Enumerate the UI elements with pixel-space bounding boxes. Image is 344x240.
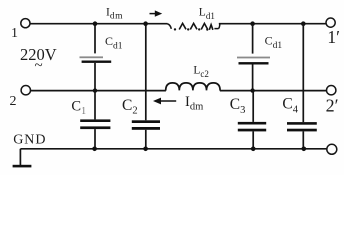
junction top at C_d1 left <box>93 21 98 26</box>
svg-text:Lc2: Lc2 <box>193 64 209 79</box>
capacitor C3 <box>238 91 266 149</box>
capacitor C4 <box>287 24 317 149</box>
label GND <box>13 132 46 147</box>
AC tilde mark <box>35 58 43 74</box>
svg-text:Cd1: Cd1 <box>105 34 123 52</box>
junction ground at C4 <box>302 147 307 152</box>
wire ground rail <box>20 148 326 150</box>
svg-text:~: ~ <box>35 58 43 74</box>
svg-text:C3: C3 <box>230 96 246 116</box>
terminal 2' <box>327 86 336 95</box>
junction row2 at C_d1 left <box>93 88 97 92</box>
label Idm middle <box>185 94 203 113</box>
label C_d1 left <box>105 34 123 52</box>
current arrow Idm top <box>150 10 163 16</box>
junction row2 at C_d1 right <box>250 88 254 92</box>
ground symbol <box>13 149 32 168</box>
node 1 label <box>11 26 18 41</box>
svg-text:Idm: Idm <box>106 6 123 21</box>
junction ground at C2 <box>143 147 148 152</box>
terminal bottom right <box>327 144 337 154</box>
node 2 label <box>10 94 17 109</box>
label C2 <box>122 97 138 117</box>
svg-text:Idm: Idm <box>185 94 203 113</box>
capacitor C2 <box>132 24 160 149</box>
svg-text:Ld1: Ld1 <box>199 7 215 22</box>
wire top rail left <box>30 23 167 25</box>
inductor L_c2 <box>166 83 220 91</box>
wire row2 left <box>31 90 166 92</box>
wire row2 right <box>220 90 327 92</box>
inductor L_d1 <box>168 23 220 30</box>
label C1 <box>71 99 86 118</box>
svg-text:C4: C4 <box>282 96 298 116</box>
label L_d1 <box>199 7 215 22</box>
junction top at C_d1 right <box>250 21 255 26</box>
label 220V <box>20 45 57 64</box>
label C3 <box>230 96 246 116</box>
current arrow Idm middle <box>153 98 176 105</box>
label C4 <box>282 96 298 116</box>
svg-text:2: 2 <box>10 94 17 109</box>
junction top at C4 <box>301 21 306 26</box>
terminal 2 <box>21 86 30 95</box>
label Idm top <box>106 6 123 21</box>
label L_c2 <box>193 64 209 79</box>
wire top rail right <box>219 23 326 25</box>
svg-text:C1: C1 <box>71 99 86 118</box>
junction ground at C3 <box>251 147 256 152</box>
terminal 1 <box>21 19 30 28</box>
junction top at C2 <box>143 21 148 26</box>
capacitor C_d1 right <box>237 24 270 91</box>
svg-text:Cd1: Cd1 <box>265 33 283 51</box>
svg-text:1: 1 <box>11 26 18 41</box>
label C_d1 right <box>265 33 283 51</box>
svg-text:2′: 2′ <box>326 96 339 116</box>
svg-text:1′: 1′ <box>327 27 340 47</box>
node 2' label <box>326 96 339 116</box>
svg-text:GND: GND <box>13 132 46 147</box>
terminal 1' <box>326 18 335 27</box>
svg-text:C2: C2 <box>122 97 138 117</box>
capacitor C_d1 left <box>80 24 112 91</box>
node 1' label <box>327 27 340 47</box>
capacitor C1 <box>80 91 110 149</box>
junction ground at C1 <box>92 147 97 152</box>
